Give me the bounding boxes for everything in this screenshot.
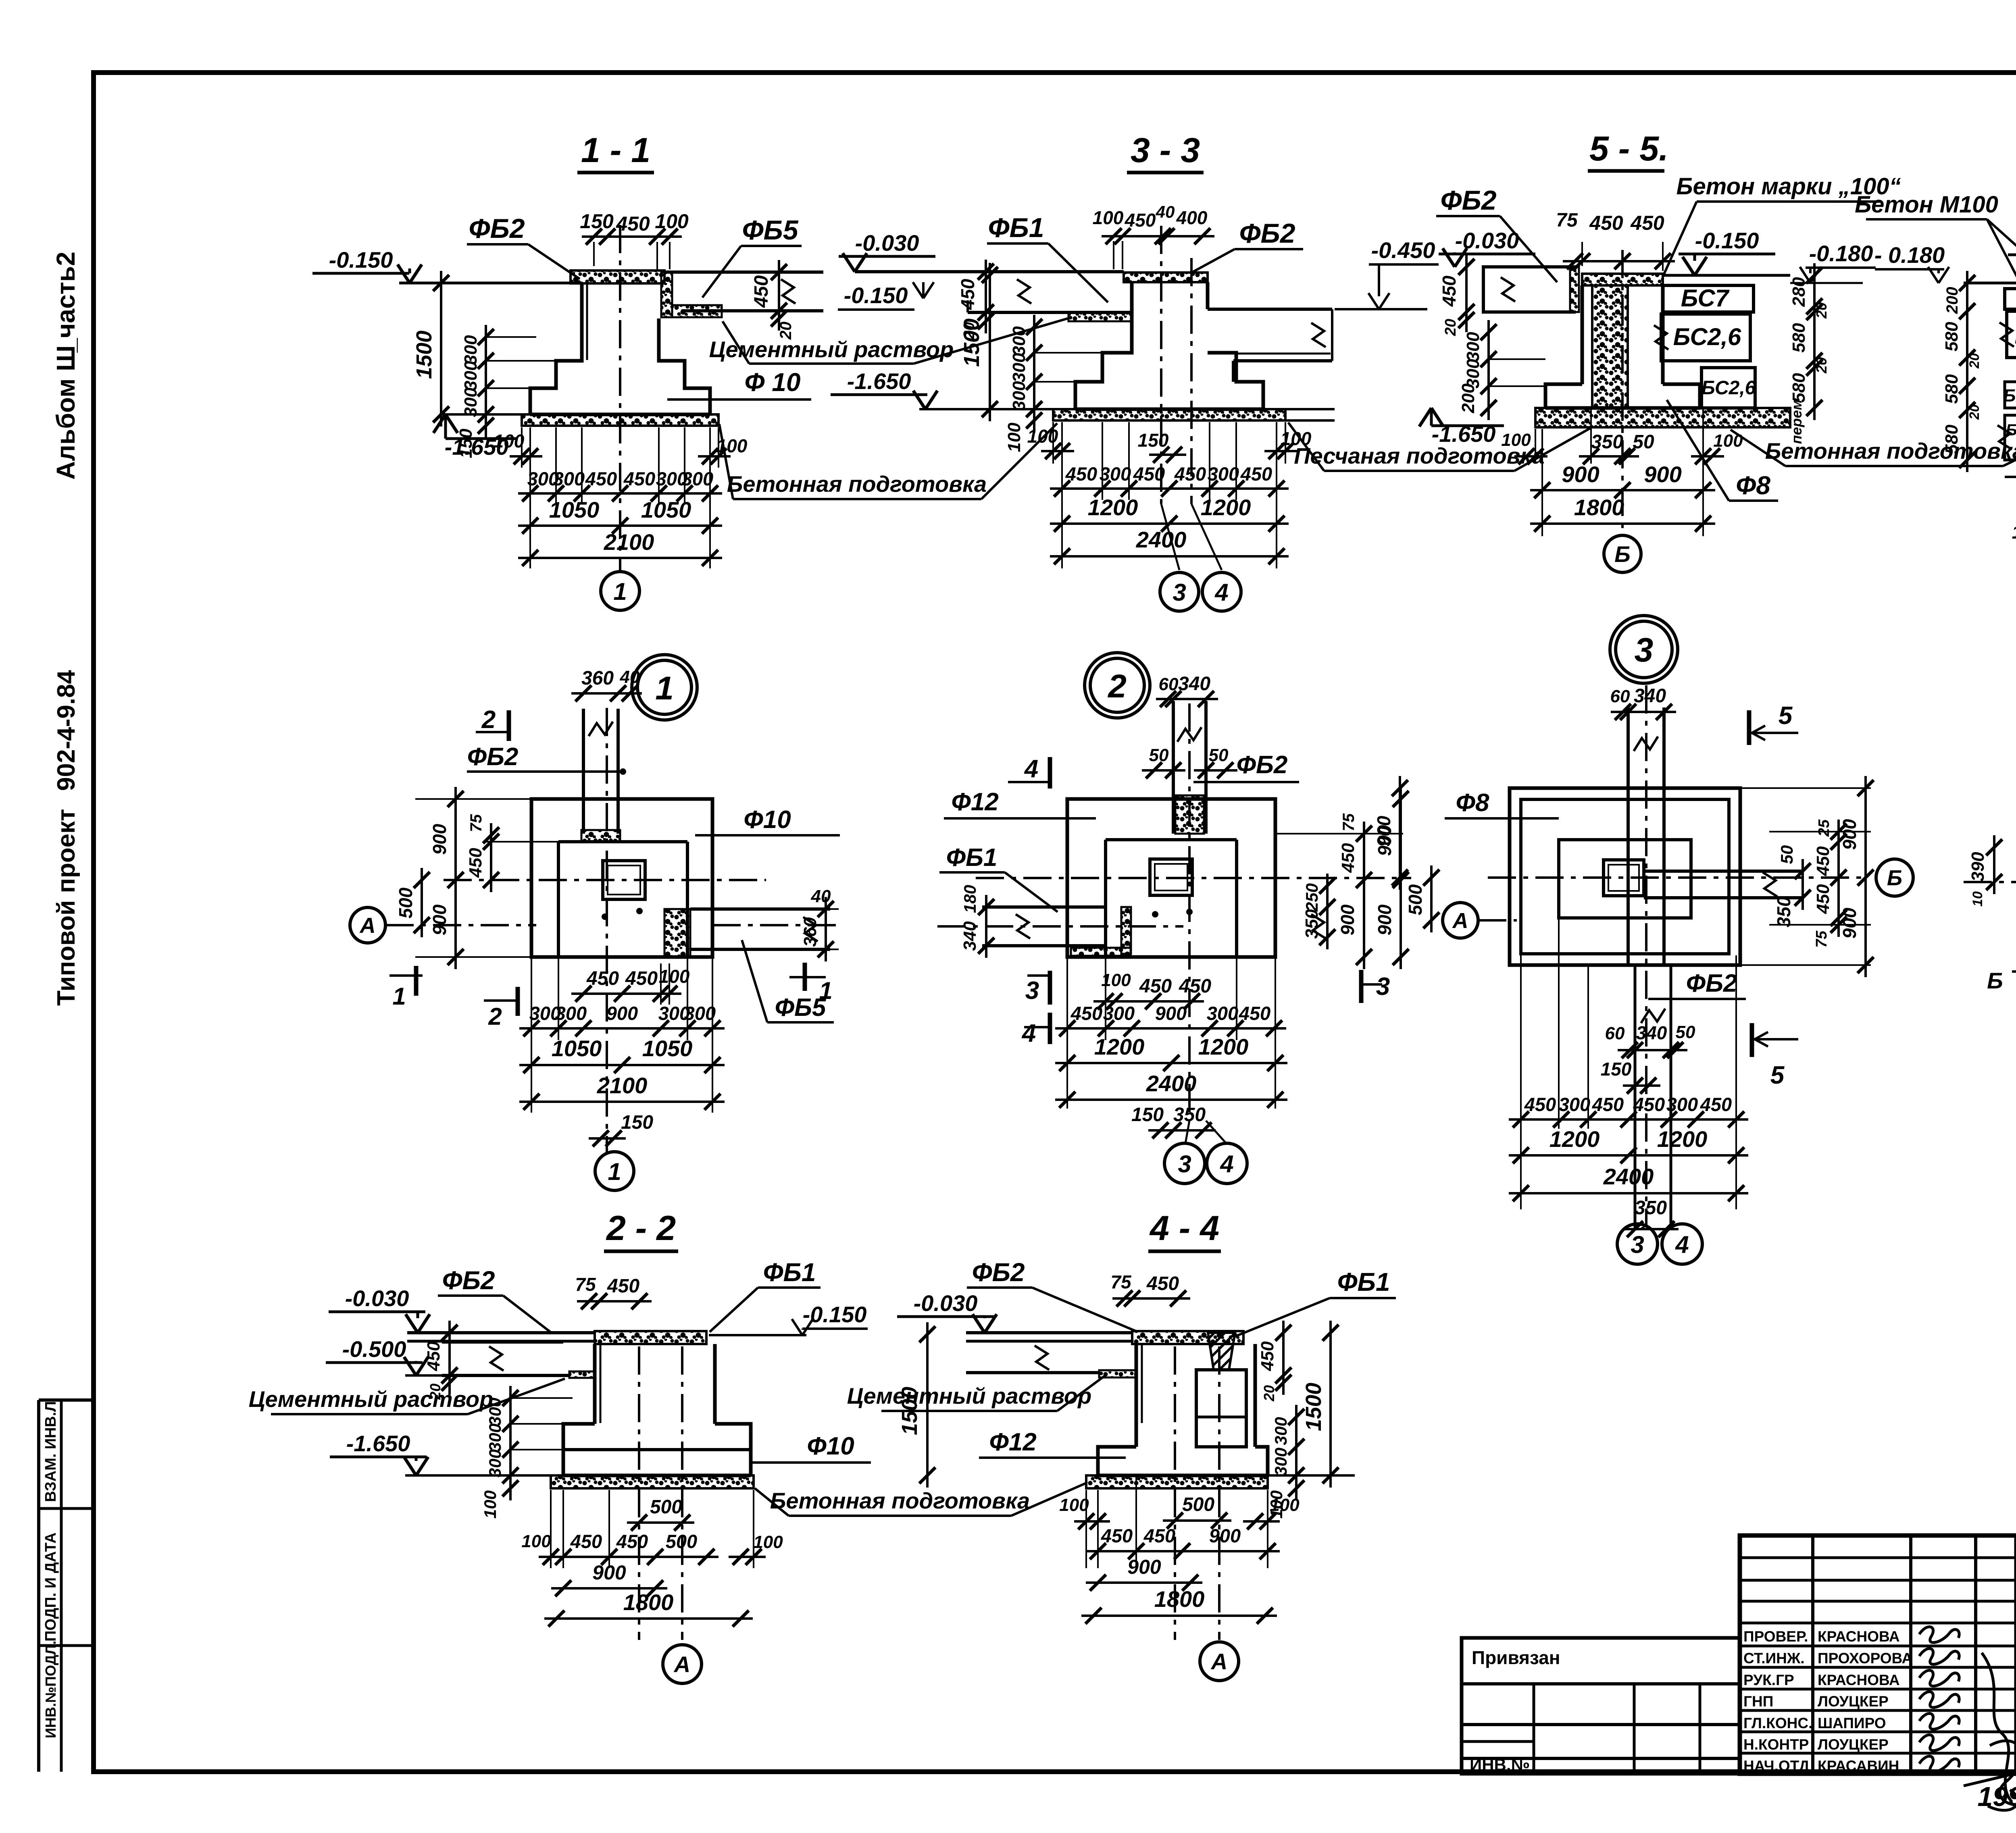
svg-text:2: 2 <box>1107 668 1127 705</box>
svg-text:580: 580 <box>1789 323 1809 353</box>
svg-text:450: 450 <box>585 468 617 489</box>
plan 2 left beam end dims 340/180 <box>985 895 987 958</box>
svg-text:НАЧ.ОТД: НАЧ.ОТД <box>1743 1758 1810 1774</box>
plan 2 outer footing square <box>1067 799 1275 957</box>
svg-text:902-4-9.84: 902-4-9.84 <box>52 670 80 791</box>
section 1-1 cement mortar band on pier top (stipple) <box>571 270 664 283</box>
svg-text:Ф 10: Ф 10 <box>745 368 801 397</box>
svg-text:100: 100 <box>481 1490 500 1519</box>
svg-text:300: 300 <box>1271 1417 1290 1445</box>
plan 3 right beam end dims 50/350 <box>1801 859 1804 910</box>
section 2-2 floor slab thin <box>407 1340 595 1343</box>
svg-text:Бетонная подготовка: Бетонная подготовка <box>770 1488 1030 1513</box>
section 2-2 concrete prep strip (stipple) <box>551 1475 754 1488</box>
section 1-1 level mark -1.650 <box>433 414 446 433</box>
svg-text:1500: 1500 <box>412 331 436 379</box>
plan 2 inner footing step <box>1106 838 1237 841</box>
svg-text:20: 20 <box>1261 1385 1277 1402</box>
svg-text:-0.030: -0.030 <box>855 230 919 256</box>
svg-text:1: 1 <box>655 670 674 707</box>
svg-text:900: 900 <box>1839 819 1860 850</box>
plan 3 left dim 500 <box>1430 866 1433 932</box>
svg-text:450: 450 <box>1633 1094 1665 1115</box>
svg-text:Цементный раствор: Цементный раствор <box>847 1383 1092 1409</box>
svg-text:450: 450 <box>1125 210 1156 231</box>
section 1-1 dim chain 2100 <box>518 557 722 559</box>
svg-text:Типовой проект: Типовой проект <box>52 809 80 1006</box>
section 5-5 right vertical dims 280/20/580/20/580 <box>1813 263 1816 420</box>
plan 1 top dims 360/40 <box>571 692 642 695</box>
section 1-1 top dims 150/450/100 <box>582 235 682 238</box>
section 6-6 left ground line <box>1964 282 2016 285</box>
svg-text:1200: 1200 <box>1657 1126 1708 1152</box>
plan 3 dim chain 1200/1200 <box>1509 1154 1748 1157</box>
plan 2 top dims 60/340 <box>1156 698 1218 700</box>
section 4-4 dims 100 <box>1074 1520 1110 1523</box>
svg-text:- 0.180: - 0.180 <box>1874 242 1945 268</box>
section 1-1 dim chain 300/300/450/450/300/300 <box>555 427 557 504</box>
title block column lines <box>1811 1535 1814 1774</box>
svg-text:1: 1 <box>392 983 406 1010</box>
svg-text:40: 40 <box>811 886 831 906</box>
svg-text:340: 340 <box>960 921 980 951</box>
section 3-3 axis lines <box>1160 226 1162 504</box>
svg-text:1 - 1: 1 - 1 <box>581 131 650 170</box>
svg-text:1800: 1800 <box>1574 495 1624 520</box>
svg-text:500: 500 <box>666 1531 697 1552</box>
plan 3 column square <box>1604 860 1644 896</box>
section 2-2 top dims 75/450 <box>577 1300 652 1302</box>
section 4-4 right step dims 300/300/100 <box>1295 1405 1297 1500</box>
svg-text:Ф12: Ф12 <box>951 788 998 816</box>
svg-text:Бетон М100: Бетон М100 <box>1855 191 1998 218</box>
plan 2 dim chain 100/450/450 <box>1093 1000 1204 1003</box>
plan 2 axes <box>1188 703 1191 1121</box>
section 3-3 dim chain 2400 <box>1050 555 1289 558</box>
svg-text:ФБ2: ФБ2 <box>972 1258 1025 1287</box>
svg-text:450: 450 <box>1146 1273 1179 1294</box>
svg-text:Бетонная подготовка: Бетонная подготовка <box>1765 438 2016 464</box>
svg-text:300: 300 <box>1103 1003 1135 1024</box>
section 3-3 pier top stipple band <box>1124 273 1208 282</box>
svg-text:3: 3 <box>1025 977 1039 1005</box>
svg-text:20: 20 <box>1813 357 1830 374</box>
svg-text:900: 900 <box>1562 462 1599 487</box>
section 5-5 block BS7 <box>1663 285 1754 312</box>
section 6-6 block BS7 <box>2005 289 2016 309</box>
plan 1 anchor dots <box>602 913 608 920</box>
svg-text:500: 500 <box>395 887 416 918</box>
svg-text:19994-04: 19994-04 <box>1977 1781 2016 1812</box>
plan node 2: big axis bubble 2 <box>1085 653 1150 718</box>
plan 1 dim chain 450/450/100 <box>571 992 681 995</box>
plan node 3: big axis bubble 3 <box>1610 616 1678 683</box>
svg-text:Альбом Ш̲ часть2: Альбом Ш̲ часть2 <box>51 252 80 480</box>
svg-text:100: 100 <box>494 431 525 451</box>
svg-text:50: 50 <box>1149 745 1169 765</box>
svg-text:3: 3 <box>1178 1151 1191 1178</box>
svg-text:180: 180 <box>960 885 979 913</box>
svg-text:100: 100 <box>521 1531 551 1551</box>
section 4-4 pier outline <box>1135 1344 1138 1447</box>
svg-text:1200: 1200 <box>1198 1034 1249 1059</box>
plan 2 left beam FB1 <box>982 905 1106 909</box>
svg-text:450: 450 <box>586 968 619 989</box>
section 3-3 top dims 100/450/40/400 <box>1102 235 1214 237</box>
section 3-3 pier stepped outline <box>1075 282 1132 409</box>
svg-text:ФБ2: ФБ2 <box>1239 218 1295 249</box>
svg-text:Бетонная подготовка: Бетонная подготовка <box>727 471 987 497</box>
svg-text:-0.150: -0.150 <box>329 247 393 273</box>
svg-text:4: 4 <box>1024 755 1038 783</box>
svg-text:150: 150 <box>580 210 614 233</box>
svg-text:БС2,6: БС2,6 <box>1702 377 1756 399</box>
svg-text:БС2,6: БС2,6 <box>2015 322 2016 349</box>
svg-text:-1.650: -1.650 <box>346 1431 410 1456</box>
section 3-3 dim chain 450/300/450/450/300/450 <box>1102 422 1103 500</box>
svg-text:А: А <box>1210 1649 1227 1674</box>
svg-text:450: 450 <box>1240 463 1272 485</box>
section 4-4 dim 1800 <box>1081 1615 1277 1617</box>
section 3-3 slab height dims 450/20 <box>985 260 987 333</box>
svg-text:450: 450 <box>1592 1094 1624 1115</box>
svg-text:350: 350 <box>1635 1197 1667 1219</box>
svg-text:ГЛ.КОНС.: ГЛ.КОНС. <box>1743 1715 1812 1731</box>
svg-text:300: 300 <box>1271 1448 1290 1476</box>
svg-text:1: 1 <box>608 1158 621 1185</box>
svg-text:ФБ1: ФБ1 <box>763 1258 816 1287</box>
svg-text:1: 1 <box>613 578 627 605</box>
svg-text:40: 40 <box>620 667 640 687</box>
section 1-1 axis line <box>619 225 621 570</box>
svg-text:75: 75 <box>1556 210 1578 231</box>
svg-text:1500: 1500 <box>1302 1383 1326 1431</box>
svg-text:450: 450 <box>957 279 978 310</box>
svg-text:100: 100 <box>1004 422 1024 452</box>
svg-text:360: 360 <box>800 917 820 947</box>
section 3-3 vertical dim 1500 <box>989 263 991 421</box>
plan 2 anchor dots <box>1152 911 1158 918</box>
attachment box (Privyazan) <box>1462 1638 1740 1774</box>
svg-text:2100: 2100 <box>604 529 654 555</box>
plan 3 axis bubble A (left) <box>1443 903 1478 938</box>
section 6-6 left vertical dims 580/20 stack <box>1966 271 1968 472</box>
svg-text:900: 900 <box>1155 1003 1187 1024</box>
svg-text:60: 60 <box>1159 674 1179 694</box>
plan 1 section cut 1 (bottom left) <box>389 974 423 977</box>
svg-text:Б: Б <box>1987 968 2003 993</box>
svg-text:900: 900 <box>1374 904 1395 935</box>
svg-text:450: 450 <box>1179 976 1211 997</box>
svg-text:300: 300 <box>485 1449 504 1477</box>
svg-text:А: А <box>359 913 376 938</box>
section 1-1 beam height dim 450/20 <box>778 260 780 331</box>
svg-text:340: 340 <box>1636 1022 1667 1043</box>
svg-text:300: 300 <box>1559 1094 1590 1115</box>
svg-text:580: 580 <box>1789 373 1809 403</box>
plan 2 dims 50/50 <box>1142 769 1185 772</box>
section 1-1 axis bubble 1 <box>601 572 639 610</box>
svg-text:450: 450 <box>607 1275 639 1297</box>
svg-text:450: 450 <box>1070 1003 1102 1024</box>
svg-text:400: 400 <box>1176 207 1208 228</box>
svg-text:900: 900 <box>606 1003 638 1024</box>
svg-text:-0.450: -0.450 <box>1371 237 1435 263</box>
svg-text:500: 500 <box>1405 884 1426 915</box>
svg-text:2100: 2100 <box>597 1073 648 1098</box>
svg-text:150: 150 <box>456 429 476 458</box>
svg-text:580: 580 <box>1942 424 1962 454</box>
section 4-4 axes <box>1174 1346 1176 1640</box>
svg-text:4 - 4: 4 - 4 <box>1149 1209 1219 1248</box>
svg-text:300: 300 <box>1009 353 1029 383</box>
section 4-4 right dim 1500 <box>1329 1321 1332 1488</box>
svg-text:3: 3 <box>1376 973 1390 1001</box>
svg-text:900: 900 <box>1839 907 1860 938</box>
section 2-2 dim 500 <box>627 1521 694 1524</box>
plan 3 axis bubbles 3 and 4 (bottom) <box>1617 1224 1658 1264</box>
svg-text:300: 300 <box>461 335 481 365</box>
svg-text:А: А <box>1452 909 1468 933</box>
svg-text:40: 40 <box>1156 202 1175 221</box>
plan 1 column square <box>603 861 645 899</box>
svg-text:КРАСНОВА: КРАСНОВА <box>1818 1672 1900 1688</box>
section 1-1 concrete prep strip (stipple) <box>522 414 719 426</box>
svg-text:Н.КОНТР: Н.КОНТР <box>1743 1736 1809 1753</box>
plan 1 section cut 2 (bottom) <box>484 999 518 1002</box>
svg-text:2400: 2400 <box>1603 1164 1654 1189</box>
plan 3 beam verticals (top) <box>1627 707 1630 965</box>
svg-text:75: 75 <box>467 814 485 832</box>
svg-text:3: 3 <box>1635 631 1654 669</box>
section 1-1 stipple joint pier/beam <box>661 272 672 317</box>
section 4-4 top dims 75/450 <box>1112 1297 1190 1300</box>
svg-text:60: 60 <box>1605 1024 1625 1043</box>
plan 3 right beam <box>1644 870 1803 873</box>
svg-text:ЛОУЦКЕР: ЛОУЦКЕР <box>1818 1736 1889 1753</box>
svg-text:-0.030: -0.030 <box>914 1290 978 1316</box>
section 4-4 right dims 450/20 <box>1282 1321 1285 1395</box>
section 5-5 axis line <box>1621 250 1624 535</box>
svg-text:340: 340 <box>1634 685 1666 707</box>
svg-text:900: 900 <box>429 824 450 855</box>
svg-text:450: 450 <box>1239 1003 1270 1024</box>
svg-text:450: 450 <box>623 468 655 489</box>
svg-text:20: 20 <box>1442 319 1459 336</box>
svg-text:300: 300 <box>1009 381 1029 411</box>
svg-text:ФБ1: ФБ1 <box>1337 1267 1390 1296</box>
svg-text:350: 350 <box>1591 431 1623 453</box>
svg-text:100: 100 <box>753 1532 783 1552</box>
plan 1 axis bubble 1 (bottom) <box>595 1152 634 1190</box>
plan 3 dims 60/340/50 (below) <box>1618 1049 1687 1051</box>
section 1-1 dim chain 100 ends <box>521 427 523 468</box>
svg-text:900: 900 <box>429 904 450 935</box>
left margin small table (inventory boxes) <box>39 1398 94 1402</box>
section 5-5 block BS2,6 lower <box>1702 368 1755 408</box>
plan 1 top beam FB2 verticals <box>582 709 585 834</box>
plan 2 dim chain 450/300/900/300/450 <box>1066 959 1068 1109</box>
svg-text:ФБ5: ФБ5 <box>742 215 798 246</box>
svg-text:340: 340 <box>1178 673 1210 695</box>
section 5-5 sand prep strip (stipple) <box>1535 408 1790 427</box>
section 4-4 dim 900 <box>1086 1581 1202 1584</box>
plan 1 left dims 500/900/900/450/75 <box>421 868 423 937</box>
svg-text:450: 450 <box>1813 884 1833 914</box>
svg-text:300: 300 <box>555 1003 587 1024</box>
svg-text:900: 900 <box>1209 1525 1241 1546</box>
plan 2 column square <box>1150 859 1192 895</box>
svg-text:-0.150: -0.150 <box>844 283 908 308</box>
plan 4 axes <box>1964 881 2016 883</box>
plan 2 dim chain 2400 <box>1055 1099 1287 1101</box>
plan 1 dim chain 1050/1050 <box>519 1064 725 1066</box>
svg-text:-0.500: -0.500 <box>342 1336 406 1362</box>
plan 3 section cut 5 (top right) <box>1747 710 1752 745</box>
svg-text:ФБ2: ФБ2 <box>442 1266 495 1295</box>
svg-text:-1.650: -1.650 <box>1432 421 1496 447</box>
svg-text:100: 100 <box>2012 522 2016 543</box>
svg-text:1050: 1050 <box>642 1036 693 1061</box>
svg-text:5 - 5.: 5 - 5. <box>1589 129 1668 168</box>
svg-text:ИНВ.№: ИНВ.№ <box>1470 1755 1530 1774</box>
svg-text:450: 450 <box>1143 1525 1175 1546</box>
svg-text:1200: 1200 <box>1088 495 1138 520</box>
svg-text:СТ.ИНЖ.: СТ.ИНЖ. <box>1743 1650 1805 1667</box>
section 4-4 level mark -1.650 (right, shared line) <box>1268 1474 1355 1477</box>
svg-text:1200: 1200 <box>1094 1034 1145 1059</box>
svg-text:ИНВ.№ПОДЛ.: ИНВ.№ПОДЛ. <box>42 1641 59 1738</box>
section 2-2 floor dims 450/20 <box>448 1321 451 1395</box>
svg-text:450: 450 <box>1338 843 1358 873</box>
section 3-3 floor slab FB1 (left) <box>855 270 1124 273</box>
plan 3 axis bubble B (right) <box>1876 859 1913 896</box>
svg-text:350: 350 <box>1173 1104 1206 1126</box>
svg-text:ШАПИРО: ШАПИРО <box>1818 1715 1886 1731</box>
svg-text:Б: Б <box>1887 866 1902 890</box>
svg-text:-0.030: -0.030 <box>345 1286 409 1311</box>
section 5-5 top dims 75/450/450 <box>1563 260 1675 262</box>
svg-text:1200: 1200 <box>1549 1126 1600 1152</box>
svg-text:150: 150 <box>1131 1104 1164 1126</box>
svg-text:300: 300 <box>1009 326 1029 356</box>
plan 3 bottom beam to circles <box>1634 965 1637 1229</box>
svg-text:300: 300 <box>461 361 481 391</box>
svg-text:Ф12: Ф12 <box>989 1428 1036 1456</box>
svg-text:1800: 1800 <box>623 1590 674 1615</box>
plan 2 dim 150/350 <box>1148 1129 1216 1132</box>
svg-text:60: 60 <box>1610 687 1630 706</box>
svg-text:Ф10: Ф10 <box>807 1432 854 1460</box>
svg-text:5: 5 <box>1770 1061 1785 1089</box>
svg-text:300: 300 <box>1666 1094 1698 1115</box>
svg-text:900: 900 <box>592 1561 626 1584</box>
svg-text:ПРОВЕР.: ПРОВЕР. <box>1743 1628 1808 1645</box>
svg-text:300: 300 <box>684 1003 716 1024</box>
svg-text:ФБ1: ФБ1 <box>946 844 998 872</box>
svg-text:20: 20 <box>1813 302 1830 319</box>
svg-text:450: 450 <box>625 968 658 989</box>
svg-text:150: 150 <box>621 1112 653 1133</box>
svg-text:ФБ2: ФБ2 <box>467 743 519 771</box>
svg-text:3: 3 <box>1173 579 1186 606</box>
svg-text:300: 300 <box>1100 463 1131 485</box>
section 3-3 vertical step dims <box>1033 315 1035 433</box>
section 2-2 axes <box>638 1346 640 1640</box>
svg-text:1500: 1500 <box>960 318 984 367</box>
svg-text:-0.180: -0.180 <box>1809 241 1873 266</box>
plan 3 inner footing rect <box>1559 840 1691 918</box>
plan 3 axes <box>1488 876 1863 879</box>
svg-text:900: 900 <box>1373 816 1394 847</box>
svg-text:50: 50 <box>1633 431 1654 453</box>
svg-text:900: 900 <box>1644 462 1681 487</box>
svg-text:75: 75 <box>1340 813 1358 831</box>
plan 1 dim chain 300/300/900/300/300 <box>531 959 532 1113</box>
svg-text:450: 450 <box>1258 1341 1277 1371</box>
section 6-6 block BS2/b <box>2005 415 2016 460</box>
section 4-4 lower floor slab <box>966 1371 1099 1374</box>
svg-text:580: 580 <box>1942 322 1962 352</box>
svg-text:500: 500 <box>1182 1494 1214 1515</box>
section 3-3 axis bubbles 3 and 4 <box>1160 572 1199 611</box>
svg-text:75: 75 <box>1813 930 1830 948</box>
svg-text:300: 300 <box>485 1423 504 1452</box>
svg-text:300: 300 <box>1463 332 1483 362</box>
section 4-4 hatched anchor block <box>1208 1333 1235 1370</box>
section 2-2 left step dims 300/300/300/100 <box>509 1386 512 1500</box>
svg-text:1: 1 <box>819 977 832 1004</box>
svg-text:250: 250 <box>1302 883 1321 912</box>
svg-text:450: 450 <box>1133 463 1165 485</box>
svg-text:перем: перем <box>1788 399 1805 444</box>
svg-text:100: 100 <box>659 966 690 987</box>
svg-text:ФБ2: ФБ2 <box>1237 751 1288 779</box>
svg-text:ВЗАМ. ИНВ.Л: ВЗАМ. ИНВ.Л <box>42 1401 59 1502</box>
svg-text:ФБ2: ФБ2 <box>469 213 525 244</box>
section 2-2 dim chain 100/450/450/500/100 <box>550 1490 552 1568</box>
svg-text:4: 4 <box>1021 1019 1036 1047</box>
plan 3 outer slab double rectangle <box>1510 788 1740 965</box>
svg-text:3 - 3: 3 - 3 <box>1131 131 1200 170</box>
section 6-6 block BS2,6 upper <box>2007 311 2016 358</box>
svg-text:Цементный раствор: Цементный раствор <box>249 1386 494 1412</box>
svg-text:150: 150 <box>1138 430 1169 451</box>
section 5-5 left beam FB2 <box>1483 267 1576 312</box>
section 3-3 dim chain 100 ends <box>1052 422 1054 464</box>
plan 1 axis bubble A <box>350 907 385 943</box>
section 3-3 dim chain 1200/1200 <box>1061 422 1063 568</box>
section 4-4 dim 500 <box>1163 1519 1231 1522</box>
svg-text:Ф8: Ф8 <box>1736 471 1770 500</box>
svg-text:100: 100 <box>655 210 689 233</box>
svg-text:ГНП: ГНП <box>1743 1693 1773 1710</box>
svg-text:10: 10 <box>1970 891 1985 907</box>
svg-text:300: 300 <box>1208 463 1239 485</box>
section 5-5 bottom dims 100/350/50 <box>1535 429 1536 464</box>
svg-text:200: 200 <box>1943 287 1961 314</box>
svg-text:Б: Б <box>1614 541 1631 567</box>
plan 4 left beam dims 390/10 <box>1993 835 1995 894</box>
svg-text:2: 2 <box>488 1003 502 1030</box>
plan 2 axis bubbles 3 and 4 <box>1164 1143 1205 1184</box>
plan 1 beam recess stipple <box>581 830 620 842</box>
svg-text:БС2,6: БС2,6 <box>1673 323 1741 350</box>
svg-text:2 - 2: 2 - 2 <box>606 1209 676 1248</box>
section 5-5 dim chain 900/900 <box>1541 429 1543 536</box>
section 1-1 stipple under beam end <box>672 305 722 317</box>
section 3-3 right floor block <box>1208 308 1332 311</box>
